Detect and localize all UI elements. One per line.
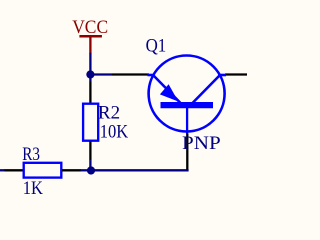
transistor Q1 emitter lead horizontal stub bbox=[148, 74, 155, 77]
svg-text:1K: 1K bbox=[23, 177, 43, 198]
transistor Q1 body circle bbox=[149, 56, 225, 132]
junction node A bbox=[86, 70, 94, 78]
transistor Q1 base pin (bottom) bbox=[186, 134, 188, 170]
transistor Q1 emitter diagonal bbox=[154, 76, 181, 104]
svg-text:VCC: VCC bbox=[72, 16, 108, 37]
resistor R2 top pin bbox=[89, 82, 91, 103]
resistor R3 left pin bbox=[5, 169, 24, 171]
resistor R3 body bbox=[24, 163, 62, 178]
svg-text:PNP: PNP bbox=[182, 133, 221, 154]
power port VCC bar and stem bbox=[79, 36, 102, 53]
resistor R2 bottom pin bbox=[89, 141, 91, 160]
wire node B to Q1 base pin bbox=[91, 169, 189, 171]
transistor Q1 collector diagonal bbox=[193, 76, 220, 104]
transistor Q1 collector pin (right) bbox=[225, 73, 247, 75]
wire left edge to R3 left pin bbox=[0, 169, 5, 171]
transistor Q1 base vertical lead bbox=[186, 108, 188, 134]
svg-text:10K: 10K bbox=[100, 120, 129, 141]
resistor R2 body bbox=[83, 104, 98, 141]
transistor Q1 base bar bbox=[161, 102, 214, 108]
transistor Q1 emitter pin (left) bbox=[112, 73, 149, 75]
svg-text:R3: R3 bbox=[22, 143, 40, 164]
wire node A to Q1 emitter pin bbox=[90, 73, 112, 75]
transistor Q1 collector lead horizontal stub bbox=[218, 74, 226, 77]
transistor Q1 emitter arrow (PNP, points to base) bbox=[160, 84, 178, 101]
wire VCC stem to node A bbox=[89, 53, 91, 82]
wire R3 right pin to node B bbox=[81, 169, 92, 171]
junction node B bbox=[87, 166, 95, 174]
svg-text:Q1: Q1 bbox=[146, 35, 167, 56]
wire R2 bottom pin to node B bbox=[89, 160, 91, 171]
resistor R3 right pin bbox=[62, 169, 81, 171]
